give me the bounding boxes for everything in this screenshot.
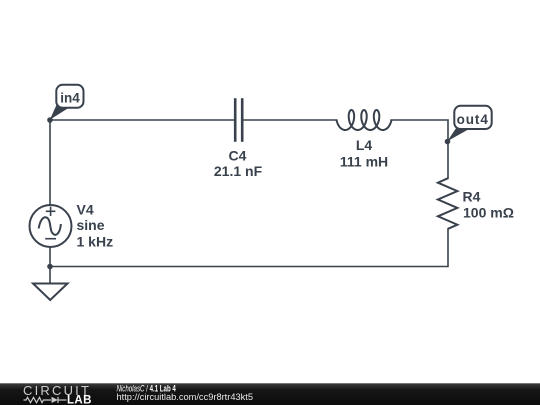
footer url line xyxy=(117,391,254,402)
resistor R4 name label xyxy=(463,189,481,205)
logo underline with resistor and diode xyxy=(24,397,67,403)
capacitor C4 name label xyxy=(229,148,247,164)
junction bottom-left xyxy=(47,264,53,270)
wire inductor to top-right corner xyxy=(391,120,448,179)
wire ground stem xyxy=(49,267,51,284)
svg-text:V4: V4 xyxy=(77,202,94,218)
footer author/title line xyxy=(117,383,177,394)
svg-text:http://circuitlab.com/cc9r8rtr: http://circuitlab.com/cc9r8rtr43kt5 xyxy=(117,391,254,402)
resistor R4 value label xyxy=(463,205,514,221)
voltage source V4 type label xyxy=(77,217,105,233)
resistor R4 xyxy=(438,178,458,229)
voltage source V4 frequency label xyxy=(77,234,114,250)
capacitor C4 xyxy=(235,98,242,142)
inductor L4 name label xyxy=(356,137,373,153)
svg-text:R4: R4 xyxy=(463,189,481,205)
capacitor C4 value label xyxy=(214,163,263,179)
svg-text:21.1 nF: 21.1 nF xyxy=(214,163,263,179)
node label in4 bubble xyxy=(56,85,83,108)
svg-text:out4: out4 xyxy=(457,112,489,127)
wire left vertical above source xyxy=(49,120,51,205)
node label in4 tail xyxy=(50,105,69,120)
svg-text:L4: L4 xyxy=(356,137,373,153)
wire resistor to bottom-right corner and bottom rail xyxy=(50,229,448,267)
logo CIRCUIT text xyxy=(23,383,91,398)
svg-text:C4: C4 xyxy=(229,148,247,164)
svg-text:LAB: LAB xyxy=(67,395,92,405)
svg-text:1 kHz: 1 kHz xyxy=(77,234,114,250)
wire left vertical below source xyxy=(49,247,51,267)
svg-text:111 mH: 111 mH xyxy=(340,153,388,169)
inductor L4 xyxy=(337,110,392,130)
svg-text:in4: in4 xyxy=(60,91,80,106)
node out4 junction xyxy=(445,139,451,145)
node label out4 tail xyxy=(447,126,469,141)
wire top-left horizontal xyxy=(50,119,235,121)
node label out4 bubble xyxy=(454,106,491,129)
voltage source V4 name label xyxy=(77,202,94,218)
inductor L4 value label xyxy=(340,153,388,169)
svg-text:100 mΩ: 100 mΩ xyxy=(463,205,514,221)
footer bar xyxy=(0,383,540,405)
logo LAB text xyxy=(67,395,92,405)
svg-text:sine: sine xyxy=(77,217,105,233)
node in4 junction xyxy=(47,117,53,123)
ground xyxy=(33,284,68,301)
wire cap to inductor xyxy=(243,119,337,121)
voltage source V4 xyxy=(30,205,72,247)
